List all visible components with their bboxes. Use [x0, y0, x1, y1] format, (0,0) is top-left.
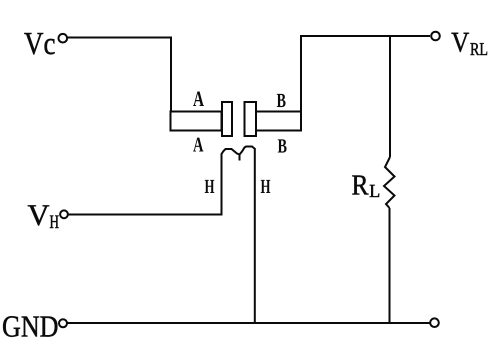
svg-text:B: B — [277, 90, 287, 112]
wire RL top lead — [389, 36, 391, 157]
terminal VRL — [431, 32, 440, 41]
wire heater left lead to VH terminal — [68, 155, 222, 215]
svg-text:B: B — [278, 136, 288, 158]
svg-text:L: L — [369, 182, 380, 202]
terminal GND left — [59, 319, 67, 327]
sensor left electrode bar — [171, 112, 222, 131]
svg-text:RL: RL — [470, 39, 488, 59]
resistor RL zigzag — [384, 157, 395, 208]
svg-text:V: V — [28, 199, 50, 232]
wire heater right lead to GND bus — [254, 148, 256, 323]
terminal VH — [60, 210, 68, 218]
svg-text:H: H — [261, 176, 271, 198]
heater coil — [222, 147, 255, 161]
svg-text:Vc: Vc — [24, 25, 56, 61]
sensor right electrode bar — [256, 112, 301, 131]
wire sensor right bar to VRL terminal — [301, 36, 430, 111]
wire RL bottom lead — [389, 208, 391, 323]
svg-text:A: A — [193, 86, 204, 111]
sensor left plate — [222, 102, 232, 136]
terminal GND right — [430, 318, 439, 327]
svg-text:GND: GND — [2, 310, 59, 344]
terminal Vc — [59, 34, 68, 43]
wire GND bus — [67, 322, 430, 324]
svg-text:H: H — [205, 176, 215, 198]
svg-text:V: V — [451, 27, 469, 58]
svg-text:A: A — [193, 133, 204, 157]
svg-text:R: R — [352, 170, 370, 202]
svg-text:H: H — [50, 212, 60, 233]
wire Vc terminal to sensor left bar — [67, 38, 171, 113]
sensor right plate — [245, 102, 257, 136]
